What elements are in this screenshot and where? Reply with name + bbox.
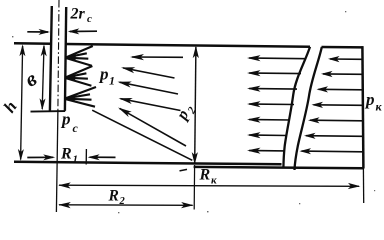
dimension arrow h top (19, 44, 25, 56)
well casing left wall (50, 6, 52, 111)
leader tick Rk (180, 169, 188, 171)
wire outer boundary extension below (362, 168, 364, 203)
dimension arrow v top (41, 44, 47, 56)
dimension line v (42, 46, 44, 109)
svg-text:c: c (87, 13, 92, 25)
dimension arrow p2 top (193, 46, 199, 59)
dimension arrow R2 right (181, 202, 194, 208)
label R_k (199, 167, 218, 187)
outer flow arrow row 6 left (247, 132, 287, 138)
label p_c (60, 110, 79, 136)
wire outer boundary right edge (362, 46, 363, 168)
svg-text:к: к (376, 100, 383, 114)
flow arrow f1 (130, 54, 183, 60)
label p_2 (173, 101, 199, 126)
well axis dash-dot centerline (58, 0, 59, 110)
supply contour left curve (283, 47, 310, 169)
outer flow arrow row 6 right (304, 133, 362, 139)
dimension extension p2 below (193, 165, 195, 210)
label h (0, 98, 21, 117)
supply contour right curve (295, 47, 322, 170)
label 2r_c (70, 6, 93, 26)
flow arrow f2 (121, 67, 175, 78)
well casing right wall (65, 7, 66, 111)
dimension arrow 2r_c right (68, 28, 97, 34)
svg-text:2r: 2r (70, 6, 86, 23)
dimension arrow Rk left (58, 182, 71, 188)
dimension arrow R2 left (58, 202, 71, 208)
outer flow arrow row 2 left (247, 70, 301, 76)
well bottom (31, 110, 66, 113)
outer flow arrow row 1 left (247, 55, 306, 61)
wire top line well to supply contour (65, 44, 310, 47)
dimension arrow 2r_c left (27, 29, 50, 35)
dimension arrow R1 right (88, 154, 116, 160)
wire bottom line of right block (194, 167, 364, 168)
dimension arrow R1 left (27, 154, 55, 160)
svg-text:2: 2 (119, 196, 126, 207)
dimension arrow Rk right (348, 183, 361, 189)
dimension line h (21, 46, 23, 160)
dimension line R2 (59, 204, 193, 207)
svg-text:с: с (73, 121, 79, 135)
wire top line left of well (14, 42, 52, 45)
flow arrow f5 (118, 108, 186, 147)
dimension arrow p2 bottom (192, 152, 198, 165)
outer flow arrow row 1 right (328, 56, 362, 62)
svg-text:R: R (108, 188, 119, 205)
label R_1 (60, 146, 78, 166)
scan speckles (12, 11, 375, 213)
flow line long radius (92, 110, 192, 160)
outer flow arrow row 7 left (247, 148, 285, 154)
svg-text:p: p (364, 90, 375, 109)
perforation inflow cluster 3 (65, 87, 96, 107)
outer flow arrow row 3 left (247, 86, 297, 92)
svg-text:R: R (199, 167, 211, 184)
outer flow arrow row 3 right (317, 86, 363, 92)
perforation inflow cluster 2 (65, 66, 92, 86)
perforation inflow cluster 1 (66, 46, 93, 66)
svg-text:1: 1 (73, 154, 79, 166)
wire top line contour to outer boundary (322, 46, 364, 49)
outer flow arrow row 4 left (247, 101, 294, 107)
outer flow arrow row 5 right (308, 117, 362, 123)
flow arrow f3 (118, 82, 179, 95)
outer flow arrow row 2 right (321, 71, 362, 77)
label p_1 (98, 65, 115, 88)
label R_2 (108, 188, 126, 208)
dimension tick R1 right (85, 149, 87, 165)
outer flow arrow row 4 right (312, 102, 363, 108)
label p_k (364, 90, 383, 114)
svg-text:к: к (211, 175, 217, 187)
well axis extension line below (56, 110, 58, 212)
svg-text:p: p (60, 110, 71, 129)
dimension arrow h bottom (18, 149, 24, 161)
outer flow arrow row 5 left (247, 117, 290, 123)
label v (21, 66, 42, 92)
svg-text:p: p (98, 65, 109, 84)
svg-text:1: 1 (109, 74, 115, 88)
svg-text:R: R (60, 146, 72, 163)
flow arrow f4 (119, 98, 181, 111)
dimension line Rk (59, 185, 359, 186)
dimension line p2 (195, 47, 196, 163)
wire bottom line of left block (14, 162, 282, 164)
outer flow arrow row 7 right (300, 148, 363, 154)
dimension arrow v bottom (40, 98, 46, 110)
